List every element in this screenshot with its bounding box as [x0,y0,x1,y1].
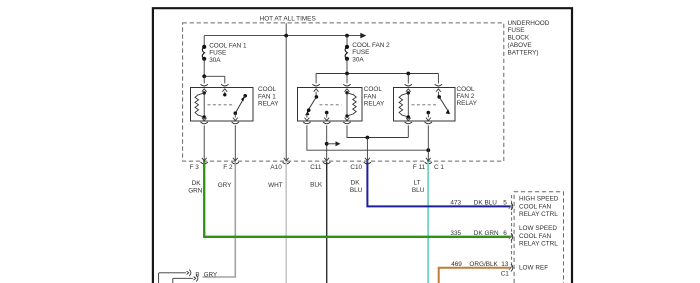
svg-text:LT: LT [414,179,421,186]
svg-text:ORG/BLK: ORG/BLK [469,261,498,268]
svg-text:DK GRN: DK GRN [474,230,499,237]
coil K2 [345,91,356,118]
svg-text:RELAY CTRL: RELAY CTRL [519,211,558,218]
underhood fuse block dashed box [183,23,504,161]
terminal K1 bottom coil [201,117,208,124]
svg-text:5: 5 [503,199,507,206]
svg-text:469: 469 [451,261,462,268]
svg-text:13: 13 [501,261,509,268]
svg-text:HOT AT ALL TIMES: HOT AT ALL TIMES [260,16,316,23]
svg-text:DK: DK [351,179,361,186]
label PCM pin 5 HIGH SPEED COOL FAN RELAY CTRL [519,196,559,219]
svg-text:GRY: GRY [204,271,217,278]
svg-text:BLK: BLK [310,182,323,189]
coil K1 [195,91,206,118]
label relay K2 [364,86,385,107]
PCM pin 6 entry [509,233,513,240]
contact stub K2 middle [325,111,329,118]
svg-text:FAN 1: FAN 1 [258,93,276,100]
svg-text:473: 473 [450,199,461,206]
terminal K2 bottom middle [323,118,330,124]
relay K2 COOL FAN RELAY box [298,88,363,122]
svg-text:COOL FAN 1: COOL FAN 1 [209,42,247,49]
terminal K3 bottom middle [425,118,432,124]
svg-text:GRN: GRN [188,187,203,194]
label wire DK BLU [350,179,363,194]
label wire LT BLU [412,179,425,194]
terminal K2 top coil [343,84,350,93]
svg-text:F 2: F 2 [223,164,233,171]
svg-text:DK: DK [192,180,202,187]
label fuse F1 [209,42,247,63]
label circuit 469 ORG/BLK [451,261,509,278]
wire BLK (C11 down) [326,162,328,283]
svg-text:C1: C1 [501,271,510,278]
svg-text:30A: 30A [352,56,364,63]
svg-text:COOL: COOL [364,86,383,93]
wire K2 middle contact to C11 with branch arrow [324,125,340,161]
svg-text:COOL FAN: COOL FAN [519,203,551,210]
svg-text:C10: C10 [350,164,362,171]
svg-text:DK BLU: DK BLU [474,199,497,206]
wire K1 switch to F2 [233,125,238,161]
svg-text:A10: A10 [270,164,282,171]
svg-text:LOW REF: LOW REF [519,264,548,271]
wire K2 switch to F11 junction [307,125,430,152]
terminal K3 top coil [405,84,412,93]
wire hot bus [204,35,361,37]
svg-text:RELAY CTRL: RELAY CTRL [519,241,558,248]
wire from label to bus [285,23,287,35]
PCM dashed box [514,192,563,283]
node bus junction fuse2 [345,34,349,38]
border frame [153,8,572,283]
svg-text:B: B [195,271,199,278]
label PCM pin 6 LOW SPEED COOL FAN RELAY CTRL [519,225,558,248]
terminal K2 bottom switch [303,118,310,124]
wire K3 middle contact to F11 [426,125,431,161]
contact stub K3 middle [427,111,431,118]
dashed actuator link K1 [208,104,234,106]
svg-text:COOL: COOL [457,86,476,93]
wire GRY (F2 down) [203,162,236,277]
terminal K3 top switch [435,84,442,97]
svg-text:GRY: GRY [218,182,232,189]
wire DK GRN (F3 to PCM pin 6) [204,162,511,237]
terminal K1 top coil [201,84,208,93]
coil K3 [399,91,410,118]
wire DK BLU (C10 to PCM pin 5) [367,162,510,207]
wire K2 coil to C10 junction [347,125,408,139]
wire hot bus to A10 [284,36,289,161]
switch K3 [437,95,450,114]
relay K3 COOL FAN 2 RELAY box [394,88,456,122]
svg-text:LOW SPEED: LOW SPEED [519,225,557,232]
svg-text:RELAY: RELAY [364,100,385,107]
label wire DK GRN [188,180,203,195]
svg-text:BLU: BLU [350,187,363,194]
label connector B GRY [195,271,217,278]
svg-text:UNDERHOOD: UNDERHOOD [508,20,550,27]
svg-text:F 11: F 11 [413,164,426,171]
svg-text:BATTERY): BATTERY) [508,49,539,56]
wire ORG/BLK (bottom to PCM pin 13) [439,268,511,283]
PCM connector C1 dashed boundary [511,195,513,268]
svg-text:RELAY: RELAY [258,100,279,107]
fuse F2 COOL FAN 2 FUSE 30A [345,36,349,74]
wire C10 drop [365,138,370,161]
wire LT BLU (F11 down) [427,162,429,283]
node bus junction A10 [284,34,288,38]
inline connector B loop 2 [173,275,198,283]
label UNDERHOOD FUSE BLOCK [508,20,550,57]
PCM pin 5 entry [509,203,513,210]
label circuit 473 DK BLU [450,199,507,206]
dashed actuator link K3 [412,104,437,106]
wire K1 coil to F3 [202,125,207,161]
PCM pin 13 entry [509,264,513,271]
inline connector B loop 1 [159,270,191,283]
svg-text:FUSE: FUSE [209,50,226,57]
label fuse F2 [352,42,390,63]
svg-text:F 3: F 3 [190,164,200,171]
connector row cups [201,162,432,164]
fuse F1 COOL FAN 1 FUSE 30A [202,36,206,77]
svg-text:(ABOVE: (ABOVE [508,42,532,49]
terminal K1 bottom switch [232,118,239,124]
label circuit 335 DK GRN [450,230,507,237]
wire WHT (A10 down) [285,162,287,283]
svg-text:C11: C11 [310,164,322,171]
svg-text:C 1: C 1 [434,164,444,171]
svg-text:HIGH SPEED: HIGH SPEED [519,196,559,203]
svg-text:FUSE: FUSE [508,27,525,34]
svg-text:WHT: WHT [268,182,283,189]
label relay K1 [258,86,279,107]
label relay K3 [457,86,478,107]
dashed actuator link K2 [320,104,342,106]
svg-text:30A: 30A [209,57,221,64]
svg-text:RELAY: RELAY [457,100,478,107]
terminal K1 top switch [221,84,228,96]
wire K3 coil drop [407,125,409,137]
wire feed relay1 [202,74,225,83]
switch K2 [305,95,318,117]
svg-text:COOL FAN: COOL FAN [519,233,551,240]
svg-text:BLU: BLU [412,187,425,194]
svg-text:FAN: FAN [364,93,377,100]
svg-text:COOL: COOL [258,86,277,93]
svg-text:BLOCK: BLOCK [508,35,530,42]
svg-text:335: 335 [450,230,461,237]
svg-text:COOL FAN 2: COOL FAN 2 [352,42,390,49]
terminal K3 bottom coil [405,117,412,124]
terminal K2 top switch [312,84,319,97]
wire feed relay2 relay3 [316,72,438,84]
terminal K2 bottom coil [343,116,350,124]
svg-text:FUSE: FUSE [352,49,369,56]
relay K1 COOL FAN 1 RELAY box [191,88,254,122]
svg-text:FAN 2: FAN 2 [457,93,475,100]
svg-text:6: 6 [503,230,507,237]
switch K1 [234,94,248,118]
